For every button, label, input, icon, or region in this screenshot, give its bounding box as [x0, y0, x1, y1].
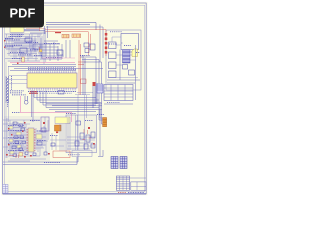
sub-box 3 in power block — [109, 62, 117, 69]
red dot PC pin — [88, 127, 95, 145]
pink trace AC line — [42, 57, 75, 59]
jumper loop JP1 — [24, 96, 28, 104]
cluster labels — [8, 126, 46, 151]
wire rows below IC right — [75, 93, 93, 95]
red pin specks — [8, 122, 26, 146]
svg-text:PDF: PDF — [10, 6, 36, 21]
IC U501 left pins — [27, 130, 29, 151]
wire left vertical — [6, 62, 9, 158]
capacitor C504 — [17, 145, 21, 148]
power supply block outline — [106, 30, 141, 90]
resistor R504 — [22, 141, 26, 144]
outer border frame — [3, 3, 147, 194]
resistor R511 — [19, 148, 23, 151]
IC U201 main — [27, 73, 77, 88]
resistor R403 — [33, 44, 40, 49]
pin table 1 — [111, 157, 118, 169]
title block box — [116, 178, 146, 190]
PDF badge — [0, 0, 44, 28]
connector J101 pin stack — [123, 50, 131, 63]
vertical chevron label — [7, 100, 9, 107]
red label — [30, 90, 37, 93]
capacitor C501 — [9, 126, 13, 129]
transformer T101 — [103, 118, 107, 127]
diode D602 — [80, 133, 84, 139]
wire mesh verticals top-left — [7, 28, 46, 64]
top bus wires — [46, 23, 96, 31]
wire stubs to IC left — [9, 76, 27, 84]
resistor R610 — [51, 143, 55, 146]
mid mesh verticals — [42, 40, 70, 61]
connector table P301 — [104, 85, 133, 101]
wire under connector table — [104, 103, 133, 105]
resistor R502 — [21, 128, 25, 131]
resistor R509 — [20, 136, 24, 139]
bus wires into IC — [8, 65, 103, 71]
heatsink outline red — [53, 151, 70, 158]
pink trace vertical — [20, 96, 71, 122]
mesh tint cluster — [4, 116, 50, 161]
resistor R310 — [81, 79, 87, 84]
long bottom wires — [3, 153, 78, 165]
resistor R512 — [13, 154, 17, 157]
red speck below opto — [56, 132, 58, 134]
IC U201 bottom pins — [29, 88, 76, 91]
diode D202 — [84, 43, 89, 47]
IC U201 label red — [29, 93, 38, 94]
sub-box 7 in power block — [129, 70, 135, 75]
red parts row — [9, 155, 19, 159]
IC U201 pin labels top — [28, 67, 76, 69]
capacitor C510 — [19, 153, 23, 157]
sub-box 4 in power block — [109, 71, 117, 78]
wire horizontal — [46, 25, 103, 63]
title block grid — [116, 176, 129, 190]
label D201 — [55, 32, 61, 33]
revision table bottom-left — [3, 184, 8, 193]
capacitor C101 — [132, 49, 138, 57]
wire blue pair — [83, 55, 85, 95]
diode D603 — [86, 135, 90, 142]
connector CN1 left edge — [6, 76, 9, 103]
mesh tint top-left — [4, 33, 45, 62]
mesh tint smps — [66, 115, 97, 153]
optocoupler PC601 — [55, 125, 62, 131]
comparator IC U202 — [58, 91, 64, 95]
pin table 2 — [120, 157, 127, 169]
wire down from transformer — [98, 104, 103, 157]
red marks bottom — [83, 129, 92, 140]
AC trace salmon — [26, 28, 45, 30]
IC U501 right pins — [34, 130, 36, 151]
crystal X501 — [36, 134, 42, 139]
mid mesh cluster — [38, 41, 64, 59]
capacitor C503 — [9, 139, 13, 142]
resistor R204 — [39, 47, 41, 52]
inner border frame — [5, 5, 145, 191]
mid text labels — [34, 44, 62, 58]
bus staircase below IC — [34, 91, 102, 108]
resistor R401 — [25, 38, 32, 42]
bottom center block outline — [66, 115, 97, 153]
capacitor C505 — [10, 151, 14, 154]
resistor R501 — [13, 122, 17, 125]
capacitor C204 — [40, 50, 42, 52]
sub-box 2 in power block — [109, 52, 117, 59]
resistor R506 — [37, 142, 42, 145]
IC U501 vertical — [28, 128, 34, 152]
flyback sub-box — [121, 34, 139, 50]
resistor R602 — [84, 144, 88, 149]
scattered ref labels — [12, 32, 140, 163]
wires bottom center horizontal — [67, 137, 95, 149]
wire mesh top-left — [5, 34, 42, 61]
test point TP2 — [4, 47, 5, 48]
capacitor C502 — [16, 132, 21, 135]
vertical net label — [11, 76, 13, 90]
sub-box 1 in power block — [109, 42, 117, 49]
red specks row — [6, 153, 50, 158]
resistor R503 — [14, 136, 18, 139]
sub-box 6 in power block — [123, 65, 128, 70]
resistor R402 — [20, 48, 27, 53]
capacitor C205 — [22, 57, 25, 62]
fuse F101 — [62, 34, 69, 38]
power block internal wires — [108, 37, 138, 78]
capacitor C601 — [55, 117, 70, 124]
relay box — [41, 117, 49, 131]
red speck mid — [17, 63, 19, 65]
wire red vertical — [89, 32, 91, 56]
diode D601 — [76, 121, 81, 125]
labels under U401 — [10, 35, 24, 37]
wire vertical pair badge edge — [45, 26, 48, 38]
wire to transformer — [99, 106, 103, 124]
resistor R507 — [41, 128, 46, 132]
pink trace degauss — [10, 62, 75, 64]
wire red pair right of IC — [79, 40, 81, 95]
transistor Q301 — [97, 84, 103, 93]
heavy trace — [24, 31, 46, 33]
parts row bottom — [25, 152, 47, 156]
wire vertical right — [135, 45, 137, 100]
connector CN201 — [72, 34, 81, 37]
small box below block — [72, 151, 92, 157]
resistor R601 — [75, 141, 79, 146]
IC U201 top pins — [29, 71, 76, 74]
resistor network top right — [93, 82, 97, 108]
diode stack D101 — [105, 30, 108, 57]
pin label cluster left — [10, 91, 26, 95]
red dot — [93, 82, 96, 86]
wire from U401 — [24, 29, 40, 31]
red mark — [78, 62, 86, 65]
bus staircase right — [80, 57, 102, 108]
B+ line — [45, 30, 106, 32]
title text row — [118, 192, 144, 194]
transistor Q601 — [91, 144, 95, 148]
wires in power block — [107, 43, 140, 83]
resistor R510 — [15, 141, 19, 144]
wire red stub — [39, 25, 41, 31]
transistor Q201 — [57, 50, 63, 55]
pin labels text — [5, 38, 42, 58]
bus to transformer — [46, 104, 102, 112]
resistor R508 — [19, 124, 23, 127]
resistor R505 — [12, 146, 16, 149]
wires bottom center — [60, 115, 78, 151]
wire pair down to SMPS — [78, 95, 87, 150]
bottom-left cluster wires — [3, 120, 48, 161]
sheet background — [0, 0, 149, 198]
transistor Q602 — [91, 132, 95, 138]
IC U401 top-left — [10, 27, 24, 33]
wire pair to cluster — [32, 91, 34, 123]
IC U201 pin labels bottom — [28, 91, 76, 93]
diode D204 — [85, 49, 89, 53]
bottom-left cluster verticals — [7, 118, 48, 158]
wires mid gap — [50, 133, 66, 150]
IC U401 pin stubs — [12, 33, 22, 37]
diode D203 — [90, 44, 95, 50]
test point TP1 — [4, 40, 5, 41]
